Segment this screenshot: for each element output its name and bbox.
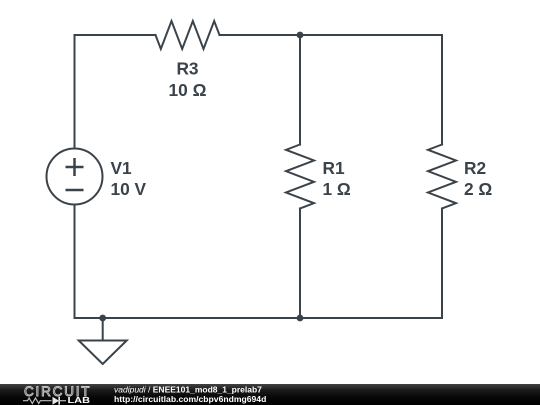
svg-text:2 Ω: 2 Ω	[464, 179, 492, 199]
svg-text:10 Ω: 10 Ω	[169, 80, 207, 100]
wire: V1 bottom lead down to bottom net	[75, 205, 103, 319]
svg-text:10 V: 10 V	[111, 179, 147, 199]
svg-text:1 Ω: 1 Ω	[323, 179, 351, 199]
wire: ground node to bottom node	[103, 317, 300, 319]
wire: node A to R2 top lead	[300, 35, 442, 145]
svg-text:R3: R3	[176, 59, 198, 79]
svg-text:V1: V1	[111, 158, 133, 178]
node A (top junction)	[297, 32, 304, 39]
svg-text:LAB: LAB	[68, 395, 91, 405]
wire: R1 top lead	[299, 35, 301, 145]
wire: V1 top lead up and over to R3 left terminal	[75, 35, 156, 149]
svg-text:R2: R2	[464, 158, 486, 178]
node: ground junction	[99, 315, 106, 322]
ground	[79, 318, 127, 364]
logo diode symbol	[53, 397, 60, 405]
wire: R1 bottom lead	[299, 209, 301, 319]
logo resistor squiggle	[23, 398, 52, 404]
resistor R1	[286, 145, 314, 209]
wire: R2 bottom lead	[441, 209, 443, 319]
voltage source V1	[47, 149, 103, 205]
footer bar	[0, 384, 540, 405]
wire: bottom node to R2 bottom	[300, 317, 442, 319]
resistor R3	[156, 21, 220, 49]
wire: R3 right terminal to node A	[220, 34, 301, 36]
svg-text:vadipudi / ENEE101_mod8_1_prel: vadipudi / ENEE101_mod8_1_prelab7	[114, 384, 262, 394]
svg-text:R1: R1	[323, 158, 345, 178]
node: bottom junction	[297, 315, 304, 322]
svg-text:http://circuitlab.com/cbpv6ndm: http://circuitlab.com/cbpv6ndmg694d	[114, 394, 266, 404]
resistor R2	[428, 145, 456, 209]
